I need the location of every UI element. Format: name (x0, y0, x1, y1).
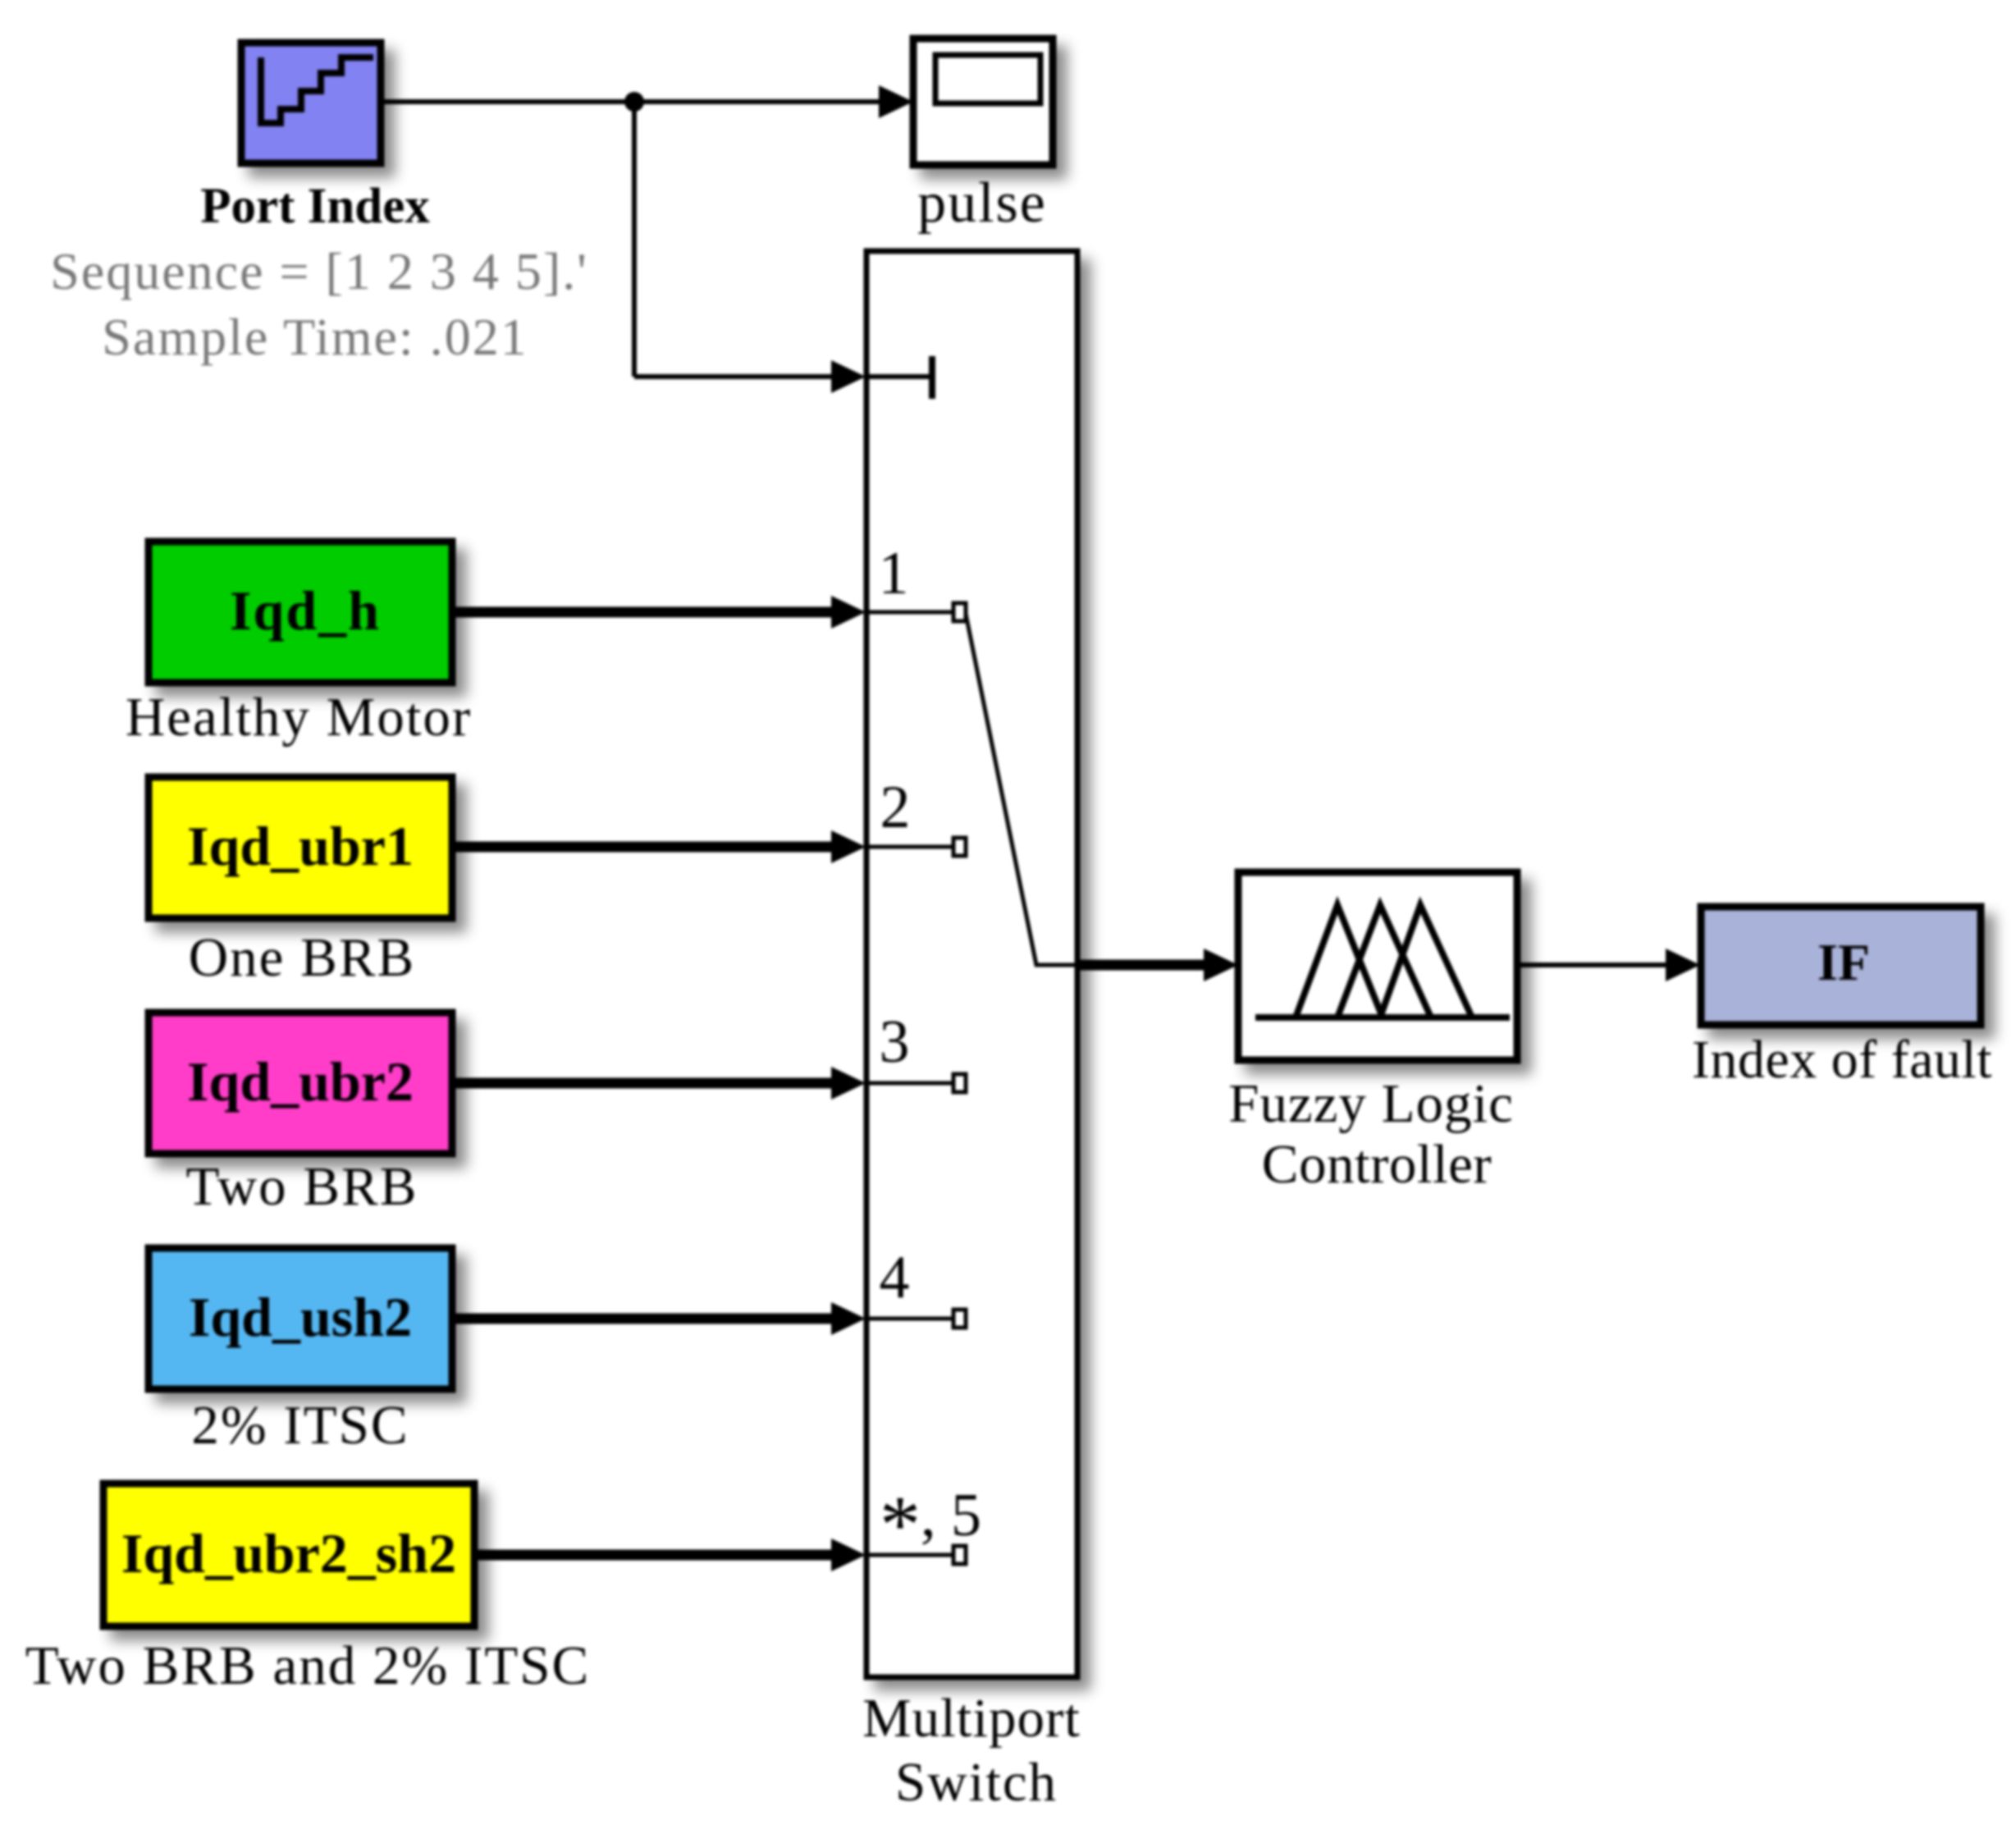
svg-text:Iqd_ubr2_sh2: Iqd_ubr2_sh2 (121, 1522, 456, 1584)
svg-text:One BRB: One BRB (189, 927, 415, 988)
svg-text:Port Index: Port Index (200, 179, 430, 234)
svg-text:Iqd_h: Iqd_h (230, 579, 381, 642)
svg-text:Sample Time: .021: Sample Time: .021 (102, 308, 528, 366)
svg-text:Iqd_ush2: Iqd_ush2 (189, 1286, 412, 1348)
svg-text:Controller: Controller (1262, 1134, 1492, 1195)
svg-text:2% ITSC: 2% ITSC (191, 1395, 409, 1456)
svg-text:3: 3 (880, 1008, 910, 1076)
svg-text:Iqd_ubr1: Iqd_ubr1 (187, 815, 414, 877)
svg-text:pulse: pulse (917, 171, 1047, 235)
svg-text:1: 1 (879, 540, 909, 607)
svg-text:IF: IF (1817, 933, 1870, 991)
svg-text:Switch: Switch (895, 1752, 1058, 1813)
svg-text:Fuzzy Logic: Fuzzy Logic (1228, 1073, 1514, 1134)
svg-text:Two BRB: Two BRB (186, 1156, 418, 1217)
svg-text:Iqd_ubr2: Iqd_ubr2 (187, 1050, 414, 1113)
svg-text:Healthy Motor: Healthy Motor (126, 687, 472, 748)
svg-text:4: 4 (880, 1244, 910, 1311)
svg-text:Index of fault: Index of fault (1692, 1030, 1992, 1090)
svg-text:Sequence = [1 2 3 4 5].': Sequence = [1 2 3 4 5].' (50, 242, 587, 300)
svg-text:2: 2 (880, 774, 911, 841)
svg-text:Two BRB and 2% ITSC: Two BRB and 2% ITSC (25, 1635, 590, 1696)
svg-text:Multiport: Multiport (862, 1688, 1081, 1749)
